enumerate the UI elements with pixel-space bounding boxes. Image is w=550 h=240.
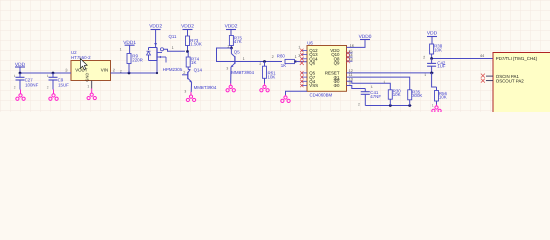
ground [186, 92, 195, 102]
svg-text:HPM2305: HPM2305 [163, 67, 183, 72]
wire R60 to U6 pin4 [296, 61, 307, 63]
resistor R56 10K [435, 87, 448, 105]
svg-text:2: 2 [259, 62, 261, 66]
resistor R9 220R [127, 53, 143, 73]
power VDD0 [359, 34, 372, 40]
wire PD7 net [433, 58, 493, 60]
svg-text:100NF: 100NF [25, 82, 38, 87]
node junction gate [186, 50, 189, 53]
power VDD1 [123, 40, 136, 53]
pins U6 right no-connect [346, 49, 353, 63]
capacitor C42 1UF [423, 55, 446, 77]
svg-text:1: 1 [295, 55, 297, 59]
svg-text:CD4060BM: CD4060BM [310, 92, 333, 97]
svg-text:10K: 10K [393, 92, 401, 97]
svg-text:10K: 10K [268, 75, 276, 80]
node junction R9 [128, 72, 131, 75]
resistor R61 10K [263, 62, 277, 84]
capacitor C9 [49, 73, 70, 90]
ground [49, 90, 58, 101]
svg-text:1K: 1K [191, 60, 196, 65]
svg-text:R60: R60 [277, 54, 286, 59]
power VDD [15, 62, 26, 74]
svg-text:1: 1 [14, 74, 16, 78]
svg-text:Q5: Q5 [234, 49, 240, 54]
svg-text:1: 1 [87, 85, 89, 89]
wire Q14 emitter [190, 82, 192, 92]
svg-text:44: 44 [480, 54, 484, 58]
ground [87, 89, 96, 100]
pin 1 GND [91, 81, 93, 89]
wire Q11 drain [156, 61, 158, 74]
svg-text:10K: 10K [434, 47, 442, 52]
node junction C9 [52, 72, 55, 75]
svg-text:47NF: 47NF [370, 94, 381, 99]
svg-text:1: 1 [172, 46, 174, 50]
pin 12 RESET wire [347, 72, 434, 74]
svg-text:1: 1 [47, 74, 49, 78]
wire to R56 [432, 73, 437, 87]
svg-text:Q14: Q14 [194, 67, 203, 72]
ground [260, 84, 269, 92]
svg-text:1: 1 [383, 80, 385, 84]
svg-text:OSCOUT PA2: OSCOUT PA2 [496, 78, 524, 83]
svg-text:1: 1 [298, 45, 300, 49]
svg-text:47K: 47K [234, 39, 242, 44]
resistor R73 1.50K [186, 36, 202, 52]
power VDD2 [181, 24, 194, 36]
svg-text:1: 1 [120, 47, 122, 51]
svg-text:3: 3 [226, 66, 228, 70]
svg-text:Φ0: Φ0 [334, 83, 341, 88]
svg-text:1K: 1K [281, 63, 286, 68]
pin 16 VDD wire [347, 40, 366, 47]
wire Q11 gate [164, 49, 185, 51]
svg-text:1: 1 [432, 104, 434, 108]
svg-text:1UF: 1UF [437, 64, 446, 69]
svg-text:1: 1 [243, 57, 245, 61]
resistor R38 10K [430, 44, 443, 59]
svg-text:GND: GND [84, 73, 89, 82]
svg-text:13: 13 [348, 58, 352, 62]
node junction C27 [19, 72, 22, 75]
svg-text:220R: 220R [132, 57, 143, 62]
mouse cursor [80, 59, 87, 70]
svg-text:16: 16 [350, 44, 354, 48]
capacitor C41 47NF [358, 85, 381, 107]
svg-text:2: 2 [47, 85, 49, 89]
ground [432, 105, 441, 113]
svg-text:9: 9 [349, 82, 351, 86]
resistor R35 300K [408, 89, 423, 105]
svg-text:3: 3 [184, 89, 186, 93]
pin 11 PHI1 wire [347, 77, 410, 90]
svg-text:VDD0: VDD0 [359, 34, 372, 40]
resistor R30 10K [388, 89, 401, 106]
pin 10 PHI0B wire [347, 81, 391, 90]
power VDD2 [149, 24, 162, 44]
op-amp U1 MCU [493, 53, 550, 113]
svg-text:Q6: Q6 [309, 61, 315, 66]
svg-text:2: 2 [272, 55, 274, 59]
svg-text:1.50K: 1.50K [190, 41, 202, 46]
resistor R75 47K [229, 35, 242, 48]
ground [281, 95, 290, 102]
pins U6 left no-connect [298, 45, 307, 87]
svg-text:3: 3 [298, 54, 300, 58]
pin OSCOUT [486, 80, 493, 82]
node junction C42 [430, 72, 433, 75]
node junction R30 [389, 104, 392, 107]
node junction R75 [230, 47, 233, 50]
node junction PD7 [430, 57, 433, 60]
node junction R61 [263, 60, 266, 63]
pin 2 VIN [111, 72, 119, 74]
svg-text:VDD2: VDD2 [149, 24, 162, 30]
svg-text:VIN: VIN [101, 68, 108, 73]
svg-text:1: 1 [424, 73, 426, 77]
wire VIN net [118, 72, 157, 74]
pin OSCIN [486, 75, 493, 77]
svg-text:VSS: VSS [309, 83, 318, 88]
svg-text:15UF: 15UF [58, 82, 69, 87]
svg-text:10K: 10K [439, 95, 447, 100]
svg-text:PD7/TLI [TIM1_CH4]: PD7/TLI [TIM1_CH4] [496, 56, 537, 61]
pin 3 VOUT [63, 72, 71, 74]
svg-text:2: 2 [423, 55, 425, 59]
svg-text:VDD2: VDD2 [181, 24, 194, 30]
svg-text:10: 10 [349, 77, 353, 81]
transistor Q5 MMBT3904 [226, 48, 244, 70]
wire ground bus [365, 105, 411, 107]
wire VSS ground [286, 91, 308, 95]
ground [226, 84, 235, 92]
ground [16, 90, 25, 101]
op-amp U6 CD4060BM [307, 41, 347, 92]
svg-text:2: 2 [14, 85, 16, 89]
transistor Q14 MMBT3904 [182, 70, 192, 94]
svg-text:VDD: VDD [427, 31, 438, 37]
capacitor C27 [16, 73, 39, 90]
svg-text:1: 1 [371, 85, 373, 89]
power VDD [427, 31, 438, 44]
svg-text:Q11: Q11 [169, 34, 178, 39]
svg-text:2: 2 [183, 71, 185, 75]
wire collector loop [217, 48, 283, 62]
wire Q5 emitter [230, 67, 232, 84]
transistor Q11 HPM2305 [147, 43, 167, 63]
resistor R60 1K [272, 54, 297, 68]
resistor R74 1K [186, 52, 199, 70]
svg-text:300K: 300K [412, 93, 422, 98]
node junction R35 [408, 104, 411, 107]
wire VDD rail [20, 72, 63, 74]
svg-text:VDD2: VDD2 [225, 24, 238, 30]
op-amp U2 HT7550-2 regulator [71, 50, 111, 81]
svg-text:MMBT3904: MMBT3904 [231, 70, 254, 75]
svg-text:2: 2 [358, 103, 360, 107]
pin 9 PHI0 wire [347, 86, 366, 89]
svg-text:2: 2 [120, 69, 122, 73]
svg-text:U6: U6 [307, 41, 313, 46]
power VDD2 [225, 24, 238, 36]
svg-text:Q9: Q9 [334, 61, 340, 66]
svg-text:MMBT3904: MMBT3904 [194, 85, 217, 90]
